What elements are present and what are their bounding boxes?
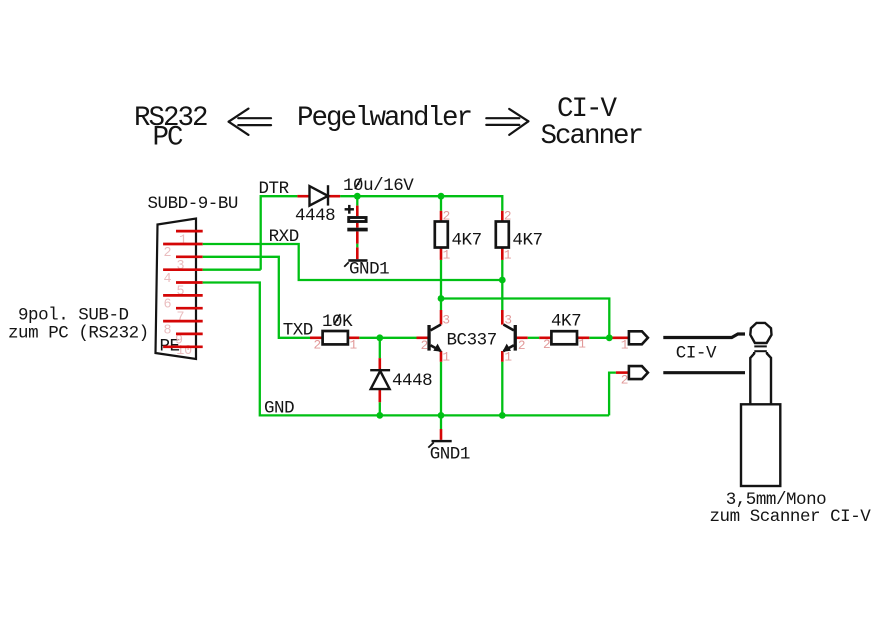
svg-text:10u/16V: 10u/16V	[343, 176, 414, 196]
svg-text:BC337: BC337	[447, 331, 497, 351]
svg-text:1: 1	[621, 338, 629, 353]
svg-text:zum PC (RS232): zum PC (RS232)	[8, 324, 149, 344]
svg-text:4448: 4448	[392, 371, 432, 391]
svg-text:2: 2	[421, 338, 428, 353]
svg-text:2: 2	[518, 338, 525, 353]
svg-text:8: 8	[164, 323, 172, 338]
svg-text:Scanner: Scanner	[541, 121, 643, 152]
svg-text:RXD: RXD	[269, 227, 299, 247]
svg-text:4: 4	[164, 272, 172, 287]
svg-text:1: 1	[442, 350, 450, 365]
svg-text:4448: 4448	[295, 206, 335, 226]
svg-text:1: 1	[504, 350, 512, 365]
svg-text:4K7: 4K7	[551, 312, 581, 332]
svg-text:GND1: GND1	[430, 445, 470, 465]
svg-text:CI-V: CI-V	[676, 344, 717, 364]
svg-text:GND: GND	[264, 399, 294, 419]
svg-text:1: 1	[443, 248, 451, 263]
svg-text:2: 2	[621, 372, 628, 387]
svg-text:TXD: TXD	[283, 321, 313, 341]
svg-text:6: 6	[164, 298, 172, 313]
svg-text:3: 3	[504, 313, 511, 328]
svg-text:1: 1	[578, 336, 586, 351]
svg-text:1: 1	[350, 338, 358, 353]
svg-text:1: 1	[179, 233, 187, 248]
svg-text:5: 5	[177, 285, 185, 300]
svg-text:4K7: 4K7	[512, 231, 542, 251]
svg-text:3: 3	[177, 259, 185, 274]
svg-text:zum Scanner CI-V: zum Scanner CI-V	[710, 507, 872, 527]
svg-text:PC: PC	[153, 123, 184, 154]
svg-text:7: 7	[177, 310, 185, 325]
svg-text:GND1: GND1	[349, 260, 389, 280]
svg-text:2: 2	[543, 337, 550, 352]
svg-text:9pol. SUB-D: 9pol. SUB-D	[18, 306, 129, 326]
svg-text:2: 2	[443, 208, 450, 223]
svg-text:2: 2	[314, 338, 321, 353]
svg-text:1: 1	[504, 248, 512, 263]
svg-text:DTR: DTR	[259, 179, 290, 199]
svg-text:2: 2	[504, 208, 511, 223]
svg-text:10K: 10K	[322, 312, 353, 332]
svg-text:2: 2	[164, 246, 172, 261]
svg-text:4K7: 4K7	[452, 231, 482, 251]
svg-text:SUBD-9-BU: SUBD-9-BU	[148, 194, 238, 214]
svg-text:3: 3	[442, 313, 449, 328]
svg-text:Pegelwandler: Pegelwandler	[297, 103, 472, 134]
